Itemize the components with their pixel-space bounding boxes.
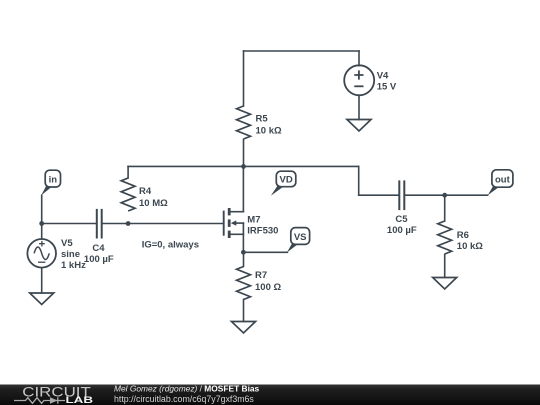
label C5 value	[387, 214, 417, 236]
node flag out	[488, 170, 513, 196]
svg-text:R4: R4	[139, 186, 152, 197]
annotation IG=0, always	[142, 240, 199, 251]
label R4 value	[139, 186, 168, 209]
svg-text:http://circuitlab.com/c6q7y7gx: http://circuitlab.com/c6q7y7gxf3m6s	[114, 394, 254, 404]
svg-text:100 µF: 100 µF	[387, 225, 417, 236]
svg-text:10 MΩ: 10 MΩ	[139, 198, 168, 209]
node dot C5-out-R6	[442, 193, 447, 198]
node flag VS	[287, 228, 310, 253]
svg-text:LAB: LAB	[66, 395, 94, 405]
ground V5	[30, 293, 54, 305]
label C4 value	[84, 243, 114, 265]
wire R6 top	[444, 195, 446, 221]
svg-text:C5: C5	[395, 214, 408, 225]
wire V5 to ground	[41, 268, 43, 293]
svg-text:10 kΩ: 10 kΩ	[457, 241, 483, 252]
node dot bus-R5-drain	[241, 164, 246, 169]
label R5 value	[256, 114, 282, 137]
ground V4	[347, 120, 371, 132]
mosfet M7	[224, 208, 237, 238]
label V5 value	[61, 238, 86, 271]
wire in drop	[41, 195, 43, 238]
svg-text:C4: C4	[92, 243, 105, 254]
svg-text:VD: VD	[279, 175, 292, 186]
wire body	[236, 222, 244, 224]
wire R6 to ground	[444, 255, 446, 278]
wire to C5 left	[359, 194, 399, 196]
node dot in-V5-C4	[39, 221, 44, 226]
wire source vertical	[242, 223, 244, 252]
svg-text:100 µF: 100 µF	[84, 254, 114, 265]
label R6 value	[457, 230, 483, 252]
node flag in	[41, 170, 60, 195]
ground R6	[433, 278, 457, 290]
capacitor C5	[399, 180, 404, 210]
voltage source V4	[344, 65, 374, 95]
resistor R4	[121, 178, 135, 211]
wire to C4 left	[42, 223, 96, 225]
svg-text:VS: VS	[294, 232, 307, 243]
svg-text:sine: sine	[61, 249, 80, 260]
svg-text:M7: M7	[247, 215, 260, 226]
resistor R6	[438, 221, 452, 254]
wire top horizontal R5 to V4	[244, 50, 360, 52]
wire gate	[103, 223, 223, 225]
svg-text:15 V: 15 V	[377, 81, 397, 92]
wire C5 to out	[405, 194, 487, 196]
wire R4 top stub	[127, 166, 129, 178]
label M7 value	[247, 215, 278, 237]
svg-text:10 kΩ: 10 kΩ	[256, 126, 282, 137]
node dot source-VS-R7	[241, 250, 246, 255]
footer logo CIRCUIT LAB	[14, 384, 94, 405]
svg-text:V4: V4	[377, 70, 389, 81]
footer bar	[0, 385, 540, 405]
label R7 value	[255, 270, 281, 293]
resistor R5	[237, 106, 251, 139]
wire R5 top	[243, 51, 245, 106]
svg-text:out: out	[495, 174, 511, 185]
resistor R7	[237, 267, 251, 300]
voltage source V5	[27, 239, 56, 268]
svg-text:100 Ω: 100 Ω	[255, 282, 281, 293]
wire bus horizontal	[128, 165, 359, 167]
svg-text:Mel Gomez (rdgomez) / MOSFET B: Mel Gomez (rdgomez) / MOSFET Bias	[114, 383, 260, 393]
wire drain vertical	[242, 166, 244, 211]
wire R7 top	[243, 252, 245, 266]
wire R5 bottom to bus	[243, 140, 245, 167]
svg-text:IG=0, always: IG=0, always	[142, 240, 199, 251]
ground R7	[232, 322, 256, 334]
wire V4 to ground	[358, 95, 360, 119]
svg-text:R6: R6	[457, 230, 469, 241]
label V4 value	[377, 70, 397, 92]
node dot R4-gate	[126, 221, 131, 226]
capacitor C4	[97, 209, 102, 239]
svg-text:in: in	[49, 175, 58, 186]
svg-text:R7: R7	[255, 270, 267, 281]
node flag VD	[271, 171, 296, 196]
wire source horizontal	[231, 233, 244, 235]
wire source to VS	[243, 251, 287, 253]
wire V4 top stub	[358, 51, 360, 66]
wire drain horizontal	[231, 211, 244, 213]
wire right drop	[358, 166, 360, 195]
svg-text:1 kHz: 1 kHz	[61, 260, 86, 271]
svg-text:IRF530: IRF530	[247, 225, 278, 236]
svg-text:R5: R5	[256, 114, 269, 125]
wire R7 to ground	[243, 300, 245, 322]
svg-text:V5: V5	[61, 238, 73, 249]
footer title text	[114, 383, 260, 404]
